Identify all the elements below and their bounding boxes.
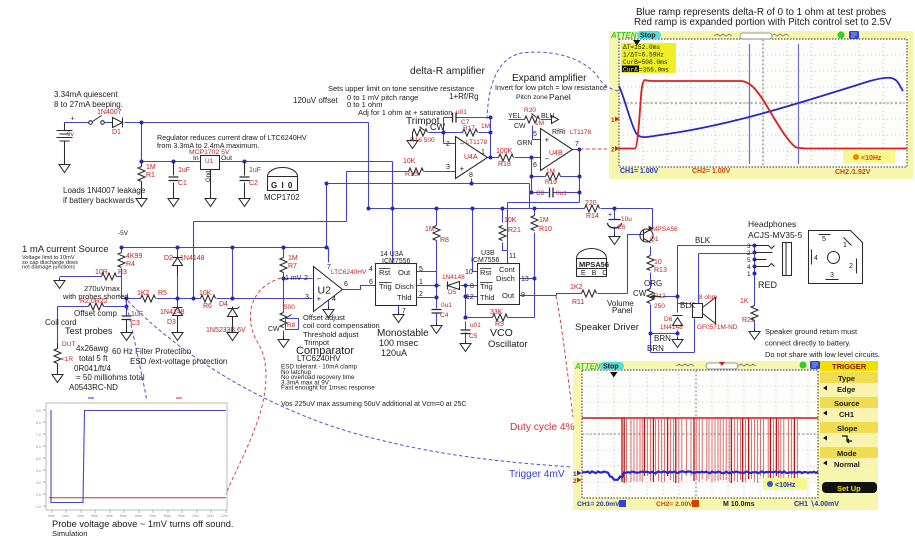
svg-text:=356.0ms: =356.0ms xyxy=(639,67,669,74)
svg-text:total 5 ft: total 5 ft xyxy=(79,354,108,363)
svg-text:D3: D3 xyxy=(167,319,176,326)
svg-text:Speaker Driver: Speaker Driver xyxy=(575,322,640,333)
svg-text:CH1= 20.0mV: CH1= 20.0mV xyxy=(577,501,620,508)
svg-text:8 to 27mA beeping.: 8 to 27mA beeping. xyxy=(54,100,123,109)
svg-text:Type: Type xyxy=(838,374,855,383)
svg-text:12: 12 xyxy=(466,294,474,301)
svg-text:10K: 10K xyxy=(199,290,212,297)
svg-text:u01: u01 xyxy=(456,109,467,116)
svg-text:4ms: 4ms xyxy=(106,514,113,518)
svg-text:8.0: 8.0 xyxy=(36,421,41,425)
svg-text:2: 2 xyxy=(849,263,853,270)
svg-text:Cont: Cont xyxy=(499,265,516,274)
svg-text:GRN: GRN xyxy=(517,140,533,147)
svg-text:Oscillator: Oscillator xyxy=(488,339,528,350)
svg-text:R20: R20 xyxy=(524,107,536,114)
svg-text:ORG: ORG xyxy=(644,279,662,288)
svg-text:BLU: BLU xyxy=(541,113,555,120)
svg-text:11: 11 xyxy=(509,253,516,260)
svg-text:LTC6240HV: LTC6240HV xyxy=(297,354,341,363)
svg-text:9: 9 xyxy=(521,292,525,299)
svg-text:1M: 1M xyxy=(539,217,549,224)
svg-text:1+Rf/Rg: 1+Rf/Rg xyxy=(449,92,479,101)
svg-text:Source: Source xyxy=(834,399,859,408)
svg-text:ΔT=152.0ms: ΔT=152.0ms xyxy=(623,44,660,51)
svg-text:1N4148: 1N4148 xyxy=(180,255,205,262)
svg-text:C4: C4 xyxy=(440,312,449,319)
svg-text:7ms: 7ms xyxy=(149,514,156,518)
svg-text:R18: R18 xyxy=(498,161,511,168)
svg-text:GF0571M-ND: GF0571M-ND xyxy=(697,324,738,331)
svg-text:CW: CW xyxy=(430,122,445,132)
svg-text:+: + xyxy=(608,212,612,219)
svg-text:<1R: <1R xyxy=(61,356,73,363)
svg-text:5: 5 xyxy=(533,131,537,138)
svg-text:Disch: Disch xyxy=(395,282,414,291)
svg-text:1M: 1M xyxy=(288,255,298,262)
svg-text:***: *** xyxy=(88,397,94,403)
svg-text:R1: R1 xyxy=(146,172,155,179)
svg-text:1N4007: 1N4007 xyxy=(97,109,122,116)
svg-text:7: 7 xyxy=(402,308,406,315)
svg-text:C2: C2 xyxy=(249,180,258,187)
svg-text:100 msec: 100 msec xyxy=(379,338,419,348)
svg-text:3: 3 xyxy=(830,272,834,279)
svg-text:Thld: Thld xyxy=(397,293,412,302)
svg-text:1: 1 xyxy=(747,271,751,278)
svg-text:3ms: 3ms xyxy=(91,514,98,518)
svg-text:RfRi: RfRi xyxy=(552,129,566,136)
svg-text:R8: R8 xyxy=(440,237,449,244)
svg-text:11m: 11m xyxy=(207,514,214,518)
svg-text:Stop: Stop xyxy=(603,364,619,371)
svg-text:1N4148: 1N4148 xyxy=(442,274,465,281)
svg-text:4.0: 4.0 xyxy=(36,469,41,473)
svg-text:14 U3A: 14 U3A xyxy=(380,251,404,258)
svg-text:3: 3 xyxy=(747,243,751,250)
svg-text:Out: Out xyxy=(398,268,411,277)
svg-text:R12: R12 xyxy=(654,293,666,300)
svg-text:+: + xyxy=(71,116,75,123)
svg-text:U1: U1 xyxy=(205,158,214,165)
svg-text:U4A: U4A xyxy=(464,154,478,161)
svg-text:10: 10 xyxy=(465,269,473,276)
svg-text:1K2: 1K2 xyxy=(137,290,150,297)
svg-text:R19: R19 xyxy=(545,179,557,186)
svg-text:R6: R6 xyxy=(203,303,212,310)
svg-text:CurA: CurA xyxy=(623,67,638,74)
svg-text:5: 5 xyxy=(419,266,423,273)
svg-text:Mode: Mode xyxy=(837,449,857,458)
svg-text:R5: R5 xyxy=(158,290,167,297)
svg-text:D5: D5 xyxy=(448,289,457,296)
svg-text:= 50 milliohms total: = 50 milliohms total xyxy=(76,373,145,382)
svg-text:G I 0: G I 0 xyxy=(271,181,293,190)
svg-text:C1: C1 xyxy=(178,180,187,187)
svg-text:***: *** xyxy=(176,397,182,403)
svg-text:Trig: Trig xyxy=(379,282,392,291)
svg-text:R15: R15 xyxy=(405,171,418,178)
svg-text:-5V: -5V xyxy=(118,230,129,237)
svg-text:R16 500: R16 500 xyxy=(410,137,435,144)
svg-text:MPSA56: MPSA56 xyxy=(652,226,678,233)
svg-text:4x26awg: 4x26awg xyxy=(76,344,108,353)
svg-text:Slope: Slope xyxy=(837,424,857,433)
svg-text:R2 0R22: R2 0R22 xyxy=(80,298,108,305)
svg-text:<10Hz: <10Hz xyxy=(775,482,796,489)
svg-text:R14: R14 xyxy=(586,213,599,220)
svg-text:D1: D1 xyxy=(112,129,121,136)
svg-text:Invert for low pitch = low res: Invert for low pitch = low resistance xyxy=(495,83,607,92)
svg-text:Edge: Edge xyxy=(837,385,855,394)
svg-text:5: 5 xyxy=(747,257,751,264)
svg-text:Vos 225uV max assuming 50uV ad: Vos 225uV max assuming 50uV additional a… xyxy=(281,401,466,408)
svg-text:R7: R7 xyxy=(288,263,297,270)
svg-text:R3: R3 xyxy=(118,269,127,276)
svg-text:C5: C5 xyxy=(469,333,478,340)
svg-text:33K: 33K xyxy=(490,309,503,316)
svg-text:CW: CW xyxy=(514,123,526,130)
svg-text:U4B: U4B xyxy=(549,150,563,157)
svg-text:+: + xyxy=(545,136,550,145)
svg-text:U3B: U3B xyxy=(481,250,495,257)
svg-text:1: 1 xyxy=(843,242,847,249)
svg-text:9ms: 9ms xyxy=(178,514,185,518)
svg-text:4K99: 4K99 xyxy=(126,253,142,260)
svg-text:120uA: 120uA xyxy=(381,348,407,358)
svg-text:LTC6240HV: LTC6240HV xyxy=(331,269,367,276)
svg-text:Do not share with low level ci: Do not share with low level circuits. xyxy=(765,350,880,359)
svg-text:Pitch zone: Pitch zone xyxy=(516,94,548,101)
svg-text:10K: 10K xyxy=(504,217,517,224)
svg-text:CH1= 1.00V: CH1= 1.00V xyxy=(620,168,659,175)
svg-text:if battery backwards: if battery backwards xyxy=(63,196,134,205)
svg-text:8: 8 xyxy=(470,283,474,290)
svg-text:ACJS-MV35-5: ACJS-MV35-5 xyxy=(748,230,803,240)
svg-text:Panel: Panel xyxy=(549,92,571,102)
svg-text:+: + xyxy=(460,165,465,174)
svg-text:ATTEN: ATTEN xyxy=(610,31,637,40)
svg-text:10: 10 xyxy=(654,259,662,266)
svg-text:0R041/ft/4: 0R041/ft/4 xyxy=(74,364,111,373)
svg-text:12m: 12m xyxy=(221,514,228,518)
svg-text:R13: R13 xyxy=(654,267,667,274)
svg-text:CurB=508.0ms: CurB=508.0ms xyxy=(623,59,668,66)
svg-text:R8: R8 xyxy=(287,322,296,329)
svg-text:R21: R21 xyxy=(508,227,521,234)
svg-text:100K: 100K xyxy=(496,148,513,155)
svg-text:Q1: Q1 xyxy=(650,236,659,243)
svg-text:1N4148: 1N4148 xyxy=(160,309,185,316)
svg-text:Gnd: Gnd xyxy=(206,171,212,182)
svg-text:ATTEN: ATTEN xyxy=(574,362,601,371)
svg-text:+: + xyxy=(317,295,322,304)
svg-text:LT1178: LT1178 xyxy=(570,129,591,136)
svg-text:1: 1 xyxy=(481,149,485,156)
svg-text:8: 8 xyxy=(469,172,473,179)
svg-text:Trigger 4mV: Trigger 4mV xyxy=(509,469,565,480)
svg-text:1/ΔT=6.59Hz: 1/ΔT=6.59Hz xyxy=(623,52,664,59)
svg-text:10R: 10R xyxy=(95,269,108,276)
svg-text:1: 1 xyxy=(419,279,423,286)
svg-text:6ms: 6ms xyxy=(135,514,142,518)
svg-text:1M: 1M xyxy=(546,168,555,175)
svg-text:0u1: 0u1 xyxy=(556,190,567,197)
svg-text:CH2= 1.00V: CH2= 1.00V xyxy=(692,168,731,175)
svg-text:u01: u01 xyxy=(470,322,481,329)
svg-text:500: 500 xyxy=(284,304,295,311)
svg-text:A0543RC-ND: A0543RC-ND xyxy=(69,383,118,392)
svg-text:BLK: BLK xyxy=(680,301,696,310)
svg-text:C8: C8 xyxy=(536,190,545,197)
svg-text:C3: C3 xyxy=(131,320,140,327)
svg-text:Disch: Disch xyxy=(496,274,515,283)
svg-text:6: 6 xyxy=(533,162,537,169)
svg-text:2: 2 xyxy=(446,141,450,148)
svg-text:250: 250 xyxy=(654,303,665,310)
svg-text:1N5233B 6V: 1N5233B 6V xyxy=(206,327,246,334)
svg-text:ICM7556: ICM7556 xyxy=(382,258,411,265)
svg-text:13: 13 xyxy=(521,276,529,283)
svg-text:connect directly to battery.: connect directly to battery. xyxy=(765,339,851,348)
svg-text:1N4148: 1N4148 xyxy=(660,324,683,331)
svg-text:CH1: CH1 xyxy=(839,410,854,419)
svg-text:Out: Out xyxy=(502,291,515,300)
svg-text:Fast enought for 1msec respons: Fast enought for 1msec response xyxy=(281,385,375,392)
svg-text:ICM7556: ICM7556 xyxy=(471,257,500,264)
svg-text:Normal: Normal xyxy=(834,460,860,469)
svg-text:Speaker ground return must: Speaker ground return must xyxy=(765,327,857,336)
svg-text:1: 1 xyxy=(573,471,577,478)
svg-text:DUT: DUT xyxy=(62,341,75,348)
svg-text:C6: C6 xyxy=(617,224,626,231)
svg-text:Out: Out xyxy=(221,155,232,162)
svg-text:0ms: 0ms xyxy=(48,514,55,518)
svg-text:Offset comp: Offset comp xyxy=(74,309,118,318)
svg-text:Stop: Stop xyxy=(640,33,656,40)
svg-text:CW: CW xyxy=(268,326,280,333)
svg-text:E B C: E B C xyxy=(581,270,609,277)
svg-text:RED: RED xyxy=(758,280,778,290)
svg-text:3: 3 xyxy=(446,164,450,171)
svg-text:Headphones: Headphones xyxy=(748,219,796,229)
svg-text:MCP1702: MCP1702 xyxy=(264,193,300,202)
svg-text:5.0: 5.0 xyxy=(36,457,41,461)
svg-text:D4: D4 xyxy=(219,301,228,308)
svg-text:LT1178: LT1178 xyxy=(466,139,487,146)
svg-text:7.0: 7.0 xyxy=(36,433,41,437)
svg-text:9v: 9v xyxy=(67,131,75,138)
svg-text:8 ohm: 8 ohm xyxy=(699,294,717,301)
svg-text:Duty cycle 4%: Duty cycle 4% xyxy=(510,422,575,433)
svg-text:3.0: 3.0 xyxy=(36,481,41,485)
svg-text:3.34mA quiescent: 3.34mA quiescent xyxy=(54,90,118,99)
svg-text:VCO: VCO xyxy=(490,327,513,339)
svg-text:−: − xyxy=(317,275,322,284)
svg-text:YEL: YEL xyxy=(508,113,521,120)
svg-text:BRN: BRN xyxy=(647,344,664,353)
svg-text:Set Up: Set Up xyxy=(837,484,861,493)
svg-text:3: 3 xyxy=(305,294,309,301)
svg-text:2: 2 xyxy=(611,147,615,154)
svg-text:Simulation: Simulation xyxy=(52,529,87,538)
svg-text:not damage junctions: not damage junctions xyxy=(22,265,75,271)
svg-text:1 mA current Source: 1 mA current Source xyxy=(22,244,109,255)
svg-text:60 Hz Filter Protection: 60 Hz Filter Protection xyxy=(112,347,191,356)
svg-text:coil cord compensation: coil cord compensation xyxy=(303,321,380,330)
svg-text:R4: R4 xyxy=(126,261,135,268)
svg-text:2.0: 2.0 xyxy=(36,493,41,497)
svg-text:2: 2 xyxy=(304,275,308,282)
svg-text:0u1: 0u1 xyxy=(441,302,452,309)
svg-text:1M: 1M xyxy=(481,123,490,130)
svg-text:2: 2 xyxy=(419,291,423,298)
svg-text:Trig: Trig xyxy=(480,282,493,291)
svg-text:2: 2 xyxy=(747,250,751,257)
svg-text:CH1 ∖4.00mV: CH1 ∖4.00mV xyxy=(794,500,839,508)
svg-text:6.0: 6.0 xyxy=(36,445,41,449)
svg-text:Thld: Thld xyxy=(480,293,495,302)
svg-text:Red ramp is expanded portion w: Red ramp is expanded portion with Pitch … xyxy=(634,17,892,28)
svg-text:Rst: Rst xyxy=(480,268,492,277)
svg-text:R22: R22 xyxy=(742,317,755,324)
svg-text:4: 4 xyxy=(369,266,373,273)
svg-text:R11: R11 xyxy=(572,299,584,306)
svg-text:R17: R17 xyxy=(463,125,475,132)
svg-text:R10: R10 xyxy=(539,226,552,233)
svg-text:1M: 1M xyxy=(425,226,435,233)
svg-text:8ms: 8ms xyxy=(164,514,171,518)
svg-text:4: 4 xyxy=(814,255,818,262)
svg-text:1M: 1M xyxy=(146,164,156,171)
svg-text:2ms: 2ms xyxy=(77,514,84,518)
svg-text:5ms: 5ms xyxy=(120,514,127,518)
svg-text:1K2: 1K2 xyxy=(570,284,583,291)
svg-text:10K: 10K xyxy=(403,158,416,165)
svg-text:10u: 10u xyxy=(621,216,632,223)
svg-text:4: 4 xyxy=(747,264,751,271)
svg-text:120uV offset: 120uV offset xyxy=(293,96,339,105)
svg-text:1.0: 1.0 xyxy=(36,505,41,509)
svg-text:7: 7 xyxy=(575,141,579,148)
svg-text:In: In xyxy=(193,155,199,162)
svg-text:1K: 1K xyxy=(740,298,749,305)
svg-text:−: − xyxy=(460,140,465,149)
svg-text:BRN: BRN xyxy=(654,334,671,343)
svg-text:1: 1 xyxy=(611,117,615,124)
svg-text:Probe voltage above ~ 1mV turn: Probe voltage above ~ 1mV turns off soun… xyxy=(52,519,234,529)
svg-text:9.0: 9.0 xyxy=(36,409,41,413)
svg-text:1ms: 1ms xyxy=(62,514,69,518)
svg-text:<10Hz: <10Hz xyxy=(861,155,882,162)
svg-text:ESD /ext-voltage protection: ESD /ext-voltage protection xyxy=(130,357,227,366)
svg-text:2: 2 xyxy=(573,478,577,485)
svg-text:CH2 ∕1.92V: CH2 ∕1.92V xyxy=(835,169,871,176)
svg-text:delta-R amplifier: delta-R amplifier xyxy=(410,66,486,77)
svg-text:Rst: Rst xyxy=(379,268,391,277)
svg-text:1M: 1M xyxy=(535,120,544,127)
svg-text:BLK: BLK xyxy=(695,236,711,245)
svg-text:D6: D6 xyxy=(664,316,673,323)
svg-text:220: 220 xyxy=(585,200,597,207)
svg-text:4: 4 xyxy=(332,296,336,303)
svg-text:1uF: 1uF xyxy=(249,167,261,174)
svg-text:10m: 10m xyxy=(192,514,199,518)
svg-text:Test probes: Test probes xyxy=(65,326,113,336)
svg-text:MPSA56: MPSA56 xyxy=(579,260,609,269)
svg-text:CW: CW xyxy=(633,289,647,298)
svg-text:6: 6 xyxy=(344,281,348,288)
svg-text:D2: D2 xyxy=(164,255,173,262)
svg-text:Loads 1N4007 leakage: Loads 1N4007 leakage xyxy=(63,186,146,195)
svg-text:1uF: 1uF xyxy=(178,167,190,174)
svg-text:CH2= 2.00V: CH2= 2.00V xyxy=(656,501,693,508)
svg-text:Panel: Panel xyxy=(612,306,633,315)
svg-text:1 mV: 1 mV xyxy=(285,275,302,282)
svg-text:TRIGGER: TRIGGER xyxy=(832,362,867,371)
svg-text:6: 6 xyxy=(369,279,373,286)
svg-text:5: 5 xyxy=(822,236,826,243)
svg-text:M 10.0ms: M 10.0ms xyxy=(723,501,755,508)
